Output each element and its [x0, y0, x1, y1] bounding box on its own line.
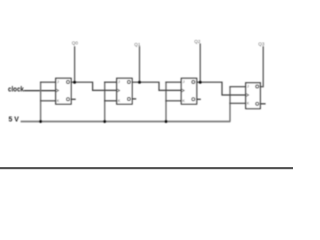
junction 5V-rail FF2 — [103, 120, 106, 123]
svg-text:K: K — [57, 99, 60, 103]
svg-text:Q1: Q1 — [134, 42, 141, 47]
junction Q1 — [138, 81, 141, 84]
wire J/K tie rail FF3 — [165, 82, 167, 122]
svg-text:Q3: Q3 — [258, 41, 265, 46]
junction Q2 — [199, 81, 202, 84]
wire Q0 to FF2 clock — [69, 82, 117, 90]
wire J stub FF1 — [40, 81, 56, 83]
wire J stub FF2 — [104, 81, 117, 83]
wire J/K tie rail FF2 — [104, 82, 106, 122]
wire J/K tie rail FF4 — [229, 87, 231, 122]
wire K stub FF1 — [40, 100, 56, 102]
wire J stub FF3 — [165, 81, 181, 83]
node Q2 drop wire — [199, 44, 201, 83]
flip-flop U4 — [246, 83, 266, 109]
svg-text:Q2: Q2 — [194, 39, 201, 44]
junction 5V-rail FF3 — [165, 120, 168, 123]
wire K stub FF4 — [229, 102, 245, 104]
wire K stub FF2 — [104, 100, 117, 102]
junction Q0 — [73, 81, 76, 84]
svg-text:5 V: 5 V — [9, 114, 19, 123]
wire Q2 to FF4 clock — [195, 82, 246, 95]
flip-flop U1 — [56, 78, 76, 104]
wire J stub FF4 — [229, 86, 245, 88]
node Q0 drop wire — [74, 46, 76, 82]
junction 5V-rail FF1 — [39, 120, 42, 123]
svg-text:J: J — [57, 80, 59, 84]
bottom horizontal rule — [0, 167, 293, 169]
svg-text:J: J — [118, 80, 120, 84]
wire Q1 to FF3 clock — [130, 82, 182, 90]
svg-text:J: J — [183, 80, 185, 84]
svg-text:K: K — [118, 99, 121, 103]
svg-text:K: K — [247, 101, 250, 105]
wire clock input — [24, 90, 56, 92]
node Q3 drop wire — [259, 46, 264, 86]
svg-text:J: J — [247, 84, 249, 88]
wire J/K tie rail FF1 — [40, 82, 42, 122]
node Q1 drop wire — [139, 46, 141, 82]
svg-text:K: K — [182, 99, 185, 103]
svg-text:Q0: Q0 — [72, 41, 79, 46]
wire K stub FF3 — [165, 100, 181, 102]
svg-text:clock: clock — [8, 84, 24, 93]
flip-flop U3 — [181, 78, 201, 104]
wire 5V rail — [21, 121, 231, 123]
flip-flop U2 — [117, 78, 137, 104]
